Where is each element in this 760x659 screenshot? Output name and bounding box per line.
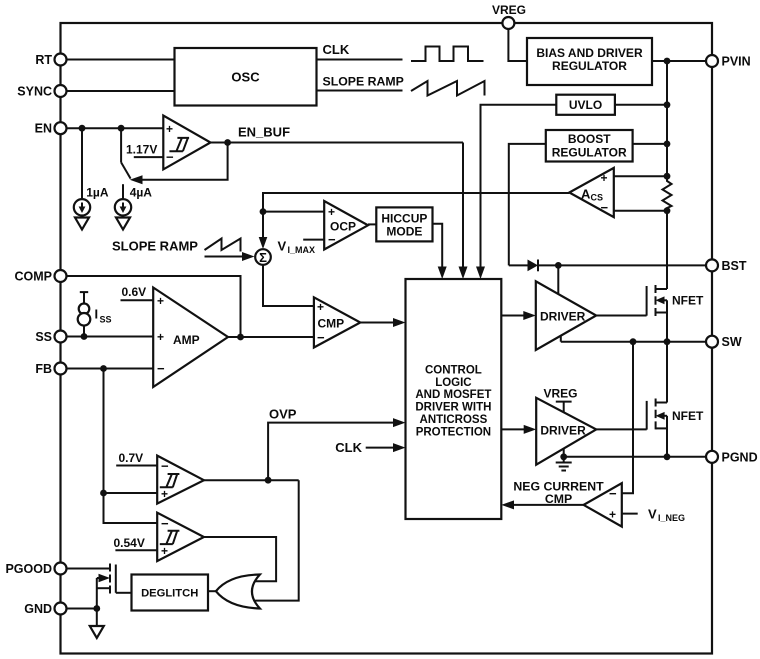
- ground low side driver: [556, 457, 572, 471]
- svg-text:COMP: COMP: [15, 270, 53, 284]
- svg-text:HICCUP: HICCUP: [381, 211, 427, 225]
- wire VREG to BIAS regulator: [508, 29, 527, 61]
- svg-text:PROTECTION: PROTECTION: [416, 427, 491, 439]
- svg-text:PVIN: PVIN: [722, 55, 751, 69]
- svg-text:I: I: [95, 307, 99, 322]
- wire SLOPE RAMP from OSC: [317, 75, 404, 91]
- svg-text:−: −: [317, 330, 325, 345]
- wire UVLO output to control logic: [481, 105, 557, 268]
- pin VREG: [492, 3, 526, 29]
- wire low side driver output to gate: [596, 428, 647, 430]
- svg-text:PGOOD: PGOOD: [5, 562, 52, 576]
- svg-text:SW: SW: [722, 335, 742, 349]
- wire FB to 0.54V comparator: [104, 493, 158, 523]
- wire CLK from OSC: [317, 42, 403, 60]
- svg-text:EN_BUF: EN_BUF: [238, 125, 290, 140]
- svg-text:+: +: [317, 300, 324, 314]
- comparator EN (1.17V): [163, 116, 210, 170]
- wire FB sense riser: [104, 369, 158, 494]
- svg-text:RT: RT: [35, 53, 52, 67]
- svg-text:FB: FB: [35, 362, 52, 376]
- svg-text:4µA: 4µA: [130, 186, 153, 200]
- pin FB: [35, 362, 66, 376]
- wire OVP comparator output: [204, 477, 299, 484]
- svg-text:BST: BST: [722, 259, 747, 273]
- current source ISS: [78, 292, 112, 336]
- or-gate PGOOD: [216, 575, 260, 609]
- arrow control to high side driver: [501, 311, 536, 320]
- wire diode to BST: [539, 262, 707, 269]
- arrow OVP into control logic: [393, 418, 406, 427]
- wire RT to OSC: [67, 59, 175, 61]
- svg-text:AND MOSFET: AND MOSFET: [415, 389, 491, 401]
- wire high side driver lower rail to SW: [560, 336, 562, 342]
- svg-text:REGULATOR: REGULATOR: [552, 59, 627, 73]
- wire SS to amp: [67, 333, 154, 340]
- svg-text:A: A: [581, 186, 591, 201]
- wire VI_MAX reference: [303, 239, 324, 241]
- block BIAS AND DRIVER REGULATOR: [527, 38, 652, 85]
- svg-text:VREG: VREG: [492, 3, 526, 17]
- svg-text:+: +: [166, 122, 173, 136]
- svg-text:+: +: [601, 171, 608, 185]
- svg-text:BIAS AND DRIVER: BIAS AND DRIVER: [536, 46, 643, 60]
- svg-text:BOOST: BOOST: [568, 132, 611, 146]
- svg-text:SLOPE RAMP: SLOPE RAMP: [112, 239, 198, 254]
- resistor current sense: [663, 176, 672, 211]
- svg-text:CLK: CLK: [335, 440, 362, 455]
- svg-text:CMP: CMP: [318, 317, 345, 331]
- svg-text:+: +: [161, 487, 168, 501]
- block BOOST REGULATOR: [546, 130, 633, 162]
- wire CMP output to control logic: [360, 322, 394, 324]
- svg-text:EN: EN: [35, 122, 52, 136]
- wire 0.54V reference: [115, 549, 157, 551]
- svg-text:V: V: [648, 507, 657, 522]
- wire DEGLITCH to PGOOD transistor gate: [116, 592, 132, 594]
- sawtooth slope ramp internal: [205, 239, 241, 252]
- svg-text:−: −: [328, 232, 336, 247]
- svg-text:VREG: VREG: [544, 387, 578, 401]
- svg-text:DRIVER WITH: DRIVER WITH: [415, 402, 491, 414]
- block HICCUP MODE: [376, 207, 432, 241]
- svg-text:OSC: OSC: [231, 70, 260, 85]
- svg-text:SLOPE RAMP: SLOPE RAMP: [323, 75, 404, 89]
- svg-text:NFET: NFET: [672, 293, 704, 307]
- label VI_MAX: [278, 239, 316, 256]
- svg-text:0.54V: 0.54V: [114, 536, 145, 550]
- transistor NFET low side: [647, 342, 704, 457]
- switch 4uA enable: [121, 128, 131, 178]
- svg-text:I_MAX: I_MAX: [288, 245, 316, 255]
- wire NEG comparator output to control logic: [513, 504, 584, 506]
- comparator OVP 0.7V: [157, 456, 204, 504]
- wire BOOST output down to diode: [509, 144, 546, 266]
- svg-text:−: −: [609, 486, 617, 501]
- driver low side: [536, 398, 596, 465]
- current source 4uA: [115, 184, 152, 215]
- wire 0.54V comparator to OR gate: [204, 537, 276, 581]
- wire 1.17V reference: [134, 156, 164, 158]
- arrow UVLO into control logic: [476, 267, 485, 280]
- svg-text:−: −: [157, 361, 165, 376]
- svg-text:ANTICROSS: ANTICROSS: [420, 414, 488, 426]
- wire HICCUP to control logic: [433, 224, 443, 268]
- pin PGOOD: [5, 562, 66, 576]
- wire 0.6V reference: [121, 299, 154, 301]
- label VREG low side driver: [544, 387, 578, 413]
- block CONTROL LOGIC: [406, 279, 502, 519]
- wire VI_NEG input: [622, 507, 685, 524]
- svg-text:DRIVER: DRIVER: [540, 423, 586, 437]
- wire CLK to control logic: [366, 447, 394, 449]
- wire summing node to CMP plus: [263, 265, 314, 306]
- wire OCP plus input: [263, 211, 324, 213]
- node EN switch tap: [118, 125, 125, 132]
- wire EN to comparator: [67, 127, 164, 129]
- arrow into summing node left: [242, 252, 255, 261]
- wire OVP to control logic: [268, 407, 394, 481]
- current source 1uA: [74, 128, 109, 215]
- svg-text:+: +: [609, 508, 616, 522]
- svg-text:−: −: [161, 459, 169, 474]
- arrow CLK into control logic: [393, 443, 406, 452]
- wire AMP output to CMP minus: [228, 334, 314, 341]
- svg-text:CONTROL: CONTROL: [425, 364, 482, 376]
- svg-text:GND: GND: [24, 602, 52, 616]
- ground 1uA: [75, 218, 89, 230]
- pin PGND: [706, 450, 758, 464]
- svg-text:CLK: CLK: [323, 42, 350, 57]
- wire FB to amp: [67, 365, 154, 372]
- svg-text:DRIVER: DRIVER: [540, 310, 586, 324]
- wire PGND rail: [560, 453, 706, 460]
- wire UVLO to bus: [615, 101, 670, 108]
- pin GND: [24, 602, 66, 616]
- wire EN_BUF feedback to switch: [141, 143, 228, 180]
- op-amp AMP: [153, 288, 228, 388]
- node OCP tap: [260, 208, 267, 215]
- block UVLO: [556, 95, 615, 115]
- driver high side: [536, 281, 596, 350]
- pin SS: [35, 330, 66, 344]
- pin PVIN: [706, 55, 751, 69]
- wire BIAS to PVIN: [652, 60, 706, 62]
- amplifier Acs: [569, 168, 614, 217]
- svg-text:DEGLITCH: DEGLITCH: [141, 588, 198, 600]
- svg-text:+: +: [161, 544, 168, 558]
- wire SW to NEG comparator minus: [622, 342, 633, 494]
- comparator NEG CURRENT CMP: [513, 480, 621, 527]
- wire Acs minus input: [614, 207, 671, 214]
- svg-text:AMP: AMP: [173, 333, 200, 347]
- arrow HICCUP into control logic: [438, 267, 447, 280]
- svg-text:PGND: PGND: [722, 450, 758, 464]
- comparator CMP: [314, 297, 360, 347]
- svg-text:V: V: [278, 239, 287, 254]
- svg-text:Σ: Σ: [259, 250, 267, 265]
- wire COMP to amp output node: [67, 276, 241, 337]
- pin SW: [706, 335, 742, 349]
- svg-text:0.7V: 0.7V: [119, 451, 144, 465]
- wire OVP comparator to OR gate: [254, 480, 299, 600]
- svg-text:REGULATOR: REGULATOR: [552, 146, 627, 160]
- wire boost to diode anode: [509, 264, 528, 266]
- svg-text:−: −: [161, 516, 169, 531]
- wire SW rail: [561, 338, 706, 345]
- svg-text:I_NEG: I_NEG: [658, 513, 685, 523]
- svg-text:MODE: MODE: [386, 224, 422, 238]
- svg-text:LOGIC: LOGIC: [435, 377, 471, 389]
- comparator OCP: [324, 201, 368, 250]
- wire SYNC to OSC: [67, 90, 175, 92]
- arrow NEG CMP into control logic: [501, 500, 514, 509]
- wire OCP to HICCUP: [368, 223, 376, 225]
- arrow into summing node top: [259, 237, 268, 249]
- comparator PGOOD 0.54V: [157, 513, 204, 561]
- svg-text:SS: SS: [35, 330, 52, 344]
- svg-text:NFET: NFET: [672, 409, 704, 423]
- svg-text:+: +: [328, 205, 335, 219]
- pin EN: [35, 122, 67, 136]
- svg-text:OVP: OVP: [269, 407, 297, 422]
- svg-text:SYNC: SYNC: [17, 85, 52, 99]
- SLOPE RAMP sawtooth waveform: [411, 81, 485, 96]
- wire BST to high side driver: [557, 265, 559, 294]
- svg-text:+: +: [157, 294, 164, 308]
- wire high side driver output to gate: [596, 315, 646, 317]
- pin BST: [706, 259, 747, 273]
- oscillator OSC: [175, 48, 317, 106]
- arrow switch control: [130, 175, 143, 184]
- pin SYNC: [17, 85, 66, 99]
- block DEGLITCH: [132, 575, 209, 611]
- arrow control to low side driver: [501, 425, 536, 434]
- svg-text:OCP: OCP: [330, 220, 356, 234]
- wire GND pin: [67, 605, 101, 612]
- arrow EN_BUF into control logic: [459, 267, 468, 280]
- summing node sigma: [255, 249, 271, 265]
- wire internal supply bus: [666, 61, 668, 180]
- wire BOOST to bus: [633, 141, 671, 148]
- svg-text:−: −: [601, 200, 609, 215]
- wire 0.7V reference: [116, 465, 157, 467]
- diode boost: [528, 260, 539, 272]
- ground 4uA: [116, 218, 130, 230]
- transistor PGOOD open-drain: [67, 564, 116, 609]
- ground GND symbol: [90, 609, 104, 639]
- svg-text:UVLO: UVLO: [569, 98, 602, 112]
- node FB comparator tap: [100, 490, 107, 497]
- node bias bus junction: [664, 58, 671, 65]
- wire low side driver rail to PGND: [563, 448, 565, 456]
- wire bus to high side NFET drain: [666, 211, 668, 289]
- svg-text:0.6V: 0.6V: [122, 285, 147, 299]
- wire EN_BUF riser to control logic: [462, 143, 464, 269]
- wire Acs output: [263, 193, 569, 239]
- svg-text:1µA: 1µA: [86, 186, 109, 200]
- wire Acs plus input: [614, 173, 671, 180]
- pin RT: [35, 53, 66, 67]
- wire OR gate to DEGLITCH: [208, 590, 216, 592]
- wire EN_BUF output: [211, 125, 464, 146]
- transistor NFET high side: [647, 285, 704, 342]
- wire slope ramp into summing node: [205, 256, 245, 258]
- node EN 1uA tap: [79, 125, 86, 132]
- CLK square waveform: [411, 47, 484, 62]
- svg-text:SS: SS: [100, 315, 112, 325]
- svg-text:+: +: [157, 330, 164, 344]
- arrow CMP into control logic: [393, 318, 406, 327]
- pin COMP: [15, 270, 67, 284]
- svg-text:1.17V: 1.17V: [126, 143, 157, 157]
